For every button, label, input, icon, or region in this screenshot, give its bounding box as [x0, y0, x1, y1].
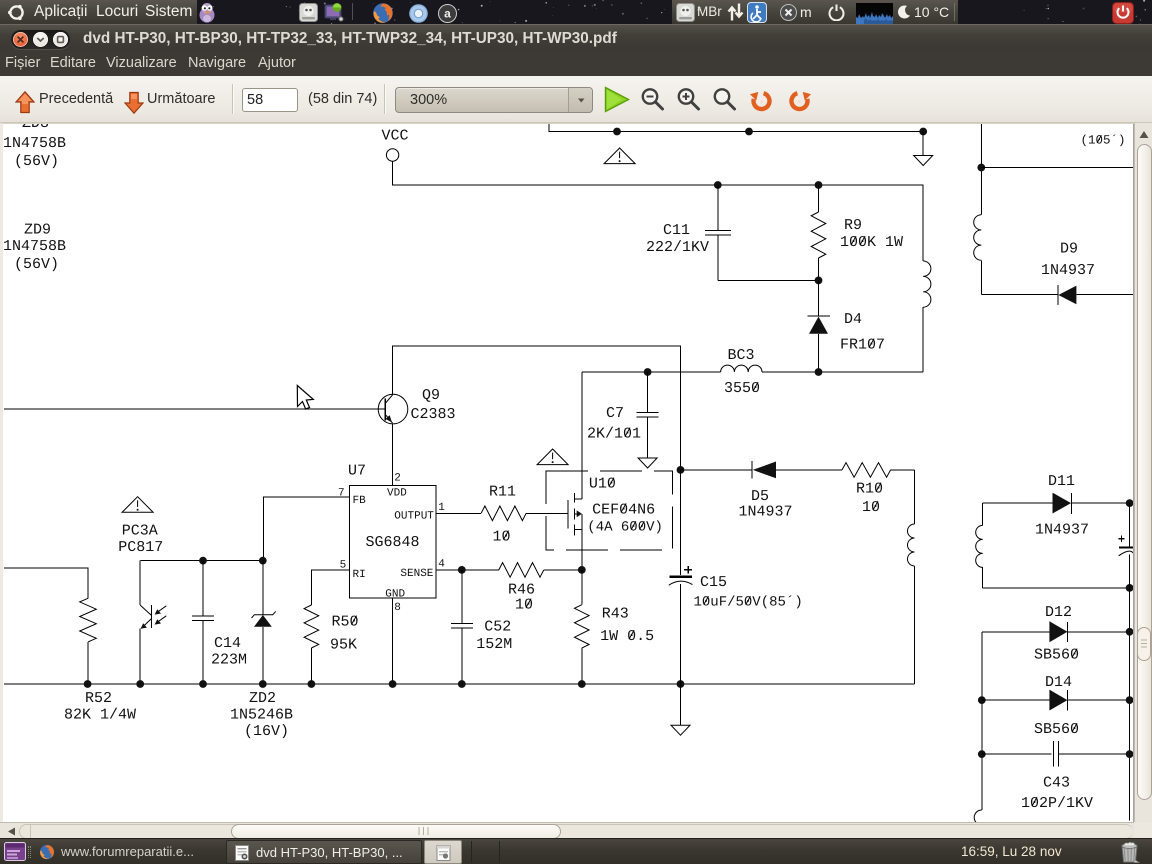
- node bus junction: [259, 680, 267, 688]
- svg-text:D11: D11: [1048, 473, 1075, 490]
- svg-text:1N5246B: 1N5246B: [230, 707, 293, 724]
- svg-text:SG6848: SG6848: [366, 534, 420, 551]
- svg-text:VCC: VCC: [382, 128, 409, 145]
- svg-text:152M: 152M: [476, 636, 512, 653]
- capacitor C52: [461, 570, 463, 623]
- svg-text:R11: R11: [489, 484, 516, 501]
- warning symbol U10: [537, 449, 568, 465]
- system monitor graph: [856, 3, 893, 24]
- svg-text:a: a: [444, 6, 451, 20]
- svg-text:SB560: SB560: [1034, 647, 1079, 664]
- mouse cursor: [297, 386, 313, 410]
- svg-text:C52: C52: [484, 618, 511, 635]
- svg-text:ZD9: ZD9: [24, 222, 51, 239]
- svg-text:100K 1W: 100K 1W: [840, 234, 903, 251]
- svg-text:C43: C43: [1043, 775, 1070, 792]
- svg-text:D4: D4: [844, 311, 862, 328]
- accessibility: [747, 2, 767, 23]
- svg-text:GND: GND: [385, 589, 405, 601]
- svg-text:OUTPUT: OUTPUT: [394, 511, 434, 523]
- resistor R9: [815, 181, 823, 189]
- capacitor right rail electrolytic: [1129, 503, 1131, 546]
- svg-text:2: 2: [394, 473, 401, 485]
- wire VCC rail: [393, 161, 924, 261]
- svg-text:FB: FB: [353, 495, 367, 507]
- U10 dashed outline: [546, 471, 673, 550]
- svg-text:U7: U7: [348, 463, 366, 480]
- svg-text:SB560: SB560: [1034, 721, 1079, 738]
- inductor BC3 3550: [721, 365, 762, 372]
- svg-text:R50: R50: [332, 614, 359, 631]
- svg-text:VDD: VDD: [387, 488, 407, 500]
- ground main: [680, 684, 682, 725]
- drive icon 1: [299, 3, 318, 22]
- svg-text:D5: D5: [751, 488, 769, 505]
- winding D11: [982, 503, 984, 525]
- wire opto rail: [140, 560, 262, 562]
- resistor R11: [436, 512, 481, 514]
- svg-text:(56V): (56V): [14, 256, 59, 273]
- maximize: [53, 32, 68, 47]
- opto light arrows: [158, 606, 166, 612]
- ubuntu logo: [7, 3, 26, 22]
- drive icon 2: [676, 3, 695, 22]
- svg-text:D9: D9: [1060, 241, 1078, 258]
- rotate right: [786, 87, 813, 113]
- svg-text:2K/101: 2K/101: [587, 426, 641, 443]
- svg-text:PC817: PC817: [118, 539, 163, 556]
- wire Q9 collector loop: [393, 346, 681, 470]
- transformer primary winding: [923, 261, 931, 307]
- window list icon: [4, 842, 26, 861]
- svg-text:102P/1KV: 102P/1KV: [1021, 795, 1093, 812]
- transformer secondary winding top: [980, 124, 982, 215]
- svg-text:C2383: C2383: [411, 406, 456, 423]
- resistor R52: [4, 568, 88, 598]
- wire FB net: [264, 497, 350, 560]
- wire mosfet source: [581, 514, 583, 570]
- zoom out: [640, 86, 666, 113]
- svg-text:82K 1/4W: 82K 1/4W: [64, 707, 136, 724]
- svg-text:ZD8: ZD8: [22, 124, 49, 132]
- rotate left: [748, 87, 775, 113]
- svg-text:Q9: Q9: [422, 387, 440, 404]
- wire top rail: [549, 124, 923, 132]
- svg-text:R9: R9: [844, 217, 862, 234]
- firefox task: [33, 840, 225, 864]
- node bus junction: [458, 680, 466, 688]
- svg-text:1: 1: [438, 502, 445, 514]
- page right edge: [1133, 124, 1134, 822]
- node top-rail junction C: [919, 128, 927, 136]
- small pressed button: [424, 840, 462, 864]
- warning symbol PC3A: [122, 497, 153, 513]
- diode D9 1N4937: [981, 294, 1058, 296]
- node top-rail junction B: [745, 128, 753, 136]
- wire ground bus: [4, 683, 914, 685]
- svg-text:CEF04N6: CEF04N6: [592, 501, 655, 518]
- red shutdown button: [1112, 2, 1134, 24]
- node bus junction: [677, 680, 685, 688]
- svg-text:1N4758B: 1N4758B: [3, 238, 66, 255]
- svg-text:C7: C7: [606, 405, 624, 422]
- svg-text:1W 0.5: 1W 0.5: [600, 628, 654, 645]
- svg-text:4: 4: [438, 559, 445, 571]
- firefox: [372, 2, 394, 24]
- svg-text:(56V): (56V): [14, 153, 59, 170]
- svg-text:95K: 95K: [330, 637, 357, 654]
- transistor U10 mosfet: [567, 500, 569, 529]
- node bus junction: [389, 680, 397, 688]
- power glyph: [828, 4, 845, 21]
- wire mosfet drain: [581, 372, 583, 499]
- zener diode ZD2: [262, 561, 264, 615]
- IC U7 SG6848: [349, 485, 436, 598]
- transistor PC3A opto output: [139, 561, 141, 606]
- svg-text:223M: 223M: [211, 652, 247, 669]
- svg-text:1N4937: 1N4937: [1041, 262, 1095, 279]
- svg-text:8: 8: [394, 602, 401, 614]
- zoom in: [676, 86, 702, 113]
- wire primary to BC3: [922, 307, 924, 372]
- svg-text:(105´): (105´): [1081, 134, 1126, 148]
- diode D5 1N4937: [681, 469, 753, 471]
- close: [13, 32, 28, 47]
- transformer output winding: [914, 470, 916, 524]
- transistor Q9 C2383: [378, 394, 408, 424]
- svg-text:1N4758B: 1N4758B: [3, 135, 66, 152]
- warning symbol top: [604, 148, 635, 164]
- evince task (active): [226, 840, 422, 864]
- svg-text:C11: C11: [663, 222, 690, 239]
- node bus junction: [308, 680, 316, 688]
- clock: [961, 840, 1062, 864]
- capacitor C11: [714, 181, 722, 189]
- svg-text:R52: R52: [85, 690, 112, 707]
- resistor R10: [842, 463, 891, 478]
- node bus junction: [84, 680, 92, 688]
- wire BC3 rail: [582, 371, 721, 373]
- svg-text:1N4937: 1N4937: [739, 504, 793, 521]
- minimize: [33, 32, 48, 47]
- trash icon: [1118, 841, 1141, 863]
- svg-text:10uF/50V(85´): 10uF/50V(85´): [694, 595, 803, 611]
- corner: [1134, 822, 1152, 838]
- svg-text:SENSE: SENSE: [400, 568, 433, 580]
- svg-text:PC3A: PC3A: [122, 523, 158, 540]
- svg-text:D12: D12: [1045, 604, 1072, 621]
- svg-text:C14: C14: [214, 635, 241, 652]
- svg-text:BC3: BC3: [728, 347, 755, 364]
- svg-text:222/1KV: 222/1KV: [646, 239, 709, 256]
- remote desktop icon: [324, 3, 344, 23]
- capacitor C7: [644, 368, 652, 376]
- svg-text:1N4937: 1N4937: [1035, 522, 1089, 539]
- wire D12 left column: [981, 632, 983, 810]
- svg-text:U10: U10: [589, 476, 616, 493]
- wire 105 branch: [981, 167, 1133, 169]
- svg-text:FR107: FR107: [840, 337, 885, 354]
- svg-text:ZD2: ZD2: [249, 690, 276, 707]
- chromium: [408, 3, 429, 24]
- resistor R43: [581, 570, 583, 605]
- resistor R46: [436, 569, 499, 571]
- resistor R50: [311, 570, 349, 605]
- capacitor C43: [982, 753, 1052, 755]
- svg-text:RI: RI: [353, 569, 366, 581]
- a badge: [438, 4, 457, 23]
- svg-text:R10: R10: [856, 481, 883, 498]
- wire C11 bottom: [718, 279, 819, 281]
- svg-text:7: 7: [338, 488, 345, 500]
- diode D4 FR107: [818, 280, 820, 316]
- node bus junction: [199, 680, 207, 688]
- pidgin icon: [198, 2, 216, 23]
- ground top-right: [922, 132, 924, 156]
- wire U7 gnd pin: [392, 598, 394, 684]
- svg-text:C15: C15: [700, 574, 727, 591]
- search: [712, 86, 738, 113]
- capacitor C15: [677, 466, 685, 474]
- svg-text:(16V): (16V): [244, 723, 289, 740]
- node bus junction: [578, 680, 586, 688]
- node top-rail junction A: [613, 128, 621, 136]
- circle x + m: [780, 4, 798, 21]
- node bus junction: [136, 680, 144, 688]
- diode D12 SB560: [982, 631, 1050, 633]
- diode D11 1N4937 loop: [983, 502, 1053, 504]
- wire right rail lower: [1129, 588, 1131, 821]
- presentation (play): [604, 86, 630, 113]
- capacitor C14: [202, 561, 204, 616]
- svg-text:(4A 600V): (4A 600V): [587, 520, 663, 536]
- net arrows: [726, 3, 745, 21]
- ground C7: [638, 458, 657, 468]
- moon + temp: [897, 5, 911, 20]
- svg-text:D14: D14: [1045, 674, 1072, 691]
- diode D14 SB560: [982, 699, 1050, 701]
- svg-text:R43: R43: [602, 606, 629, 623]
